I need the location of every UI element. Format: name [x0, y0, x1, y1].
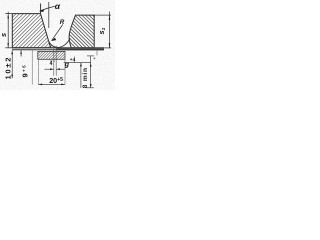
- svg-text:8 min: 8 min: [82, 67, 89, 88]
- svg-text:s: s: [0, 33, 8, 37]
- root gap dimension with outside arrows: [44, 68, 53, 70]
- 6+5 dimension line: [20, 50, 22, 56]
- small speck mark: [94, 58, 96, 60]
- svg-text:10±2: 10±2: [3, 56, 12, 80]
- svg-text:g: g: [64, 60, 70, 69]
- lower parallel line full width: [12, 49, 104, 51]
- s dimension line: [7, 12, 9, 48]
- bottom tick line: [87, 87, 94, 89]
- backing bar: [38, 51, 65, 59]
- extension line x38.4: [37, 60, 39, 85]
- vertical line x80.9 with up arrow: [80, 63, 82, 88]
- top edge extension right: [94, 14, 111, 16]
- right plate body: [69, 15, 94, 48]
- short vertical stub right of g label: [74, 56, 76, 62]
- root gap extension lines: [53, 46, 55, 76]
- alpha bevel extension line: [40, 4, 42, 14]
- svg-text:R: R: [60, 19, 65, 26]
- weld joint cross-section drawing: [0, 0, 115, 90]
- left plate body: [12, 14, 51, 48]
- vertical dim line x90.7: [90, 56, 92, 88]
- bottom edge line full width: [12, 47, 104, 49]
- top edge extension left: [5, 13, 12, 15]
- tick marks above gap dimension: [50, 60, 52, 62]
- vertical reference line center: [48, 2, 50, 28]
- 10+-2 dimension line: [11, 50, 13, 78]
- merged dark band right portion: [57, 47, 105, 50]
- extension line right of backing: [64, 59, 66, 85]
- svg-text:α: α: [55, 1, 61, 11]
- extension line x32: [31, 50, 33, 85]
- R leader: [52, 25, 63, 41]
- extension stub below right plate: [96, 49, 98, 56]
- svg-text:+4: +4: [70, 57, 76, 63]
- g reference shelf line: [64, 62, 91, 64]
- 20+5 dimension line: [38, 83, 65, 85]
- root cavity arc R: [49, 38, 70, 47]
- s1 dimension line: [109, 12, 111, 48]
- svg-text:4: 4: [50, 61, 53, 67]
- alpha leader: [40, 6, 55, 11]
- top tick: [87, 55, 94, 57]
